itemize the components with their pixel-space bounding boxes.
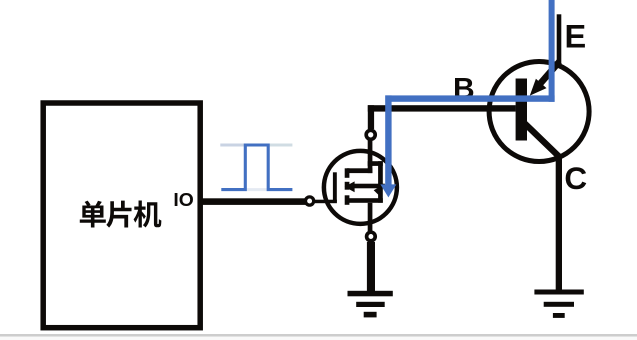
wire blue supply vertical right bbox=[549, 0, 555, 102]
wire blue vertical into MOSFET bbox=[385, 95, 391, 185]
transistor Q2 emitter diagonal bbox=[541, 62, 560, 84]
bottom frame line bbox=[0, 334, 637, 340]
box label text 单 bbox=[80, 201, 106, 228]
ground symbol G1 bbox=[348, 291, 393, 318]
pin label IO bbox=[173, 189, 193, 210]
transistor Q2 emitter arrow bbox=[530, 79, 547, 96]
svg-text:C: C bbox=[564, 160, 587, 196]
MOSFET Q1 source contact bar bbox=[345, 195, 350, 205]
pulse waveform ghost top-right bbox=[268, 144, 292, 147]
wire IO output bbox=[202, 198, 306, 205]
MOSFET Q1 gate bar bbox=[333, 172, 337, 201]
wire source horizontal bbox=[347, 198, 383, 203]
blue current arrowhead bbox=[380, 184, 396, 197]
MOSFET Q1 body line bbox=[352, 184, 385, 189]
microcontroller box bbox=[43, 103, 200, 328]
wire MOSFET drain up bbox=[368, 105, 374, 129]
node label E bbox=[564, 19, 586, 55]
MOSFET drain terminal node bbox=[366, 130, 375, 139]
wire source vertical bbox=[368, 203, 373, 232]
MOSFET Q1 drain contact bar bbox=[345, 168, 350, 178]
node label C bbox=[564, 160, 587, 196]
ground symbol G2 bbox=[534, 290, 583, 318]
wire drain-source jog vertical bbox=[378, 161, 383, 203]
wire MOSFET source to ground bbox=[367, 242, 375, 291]
gate terminal node bbox=[306, 197, 314, 205]
wire emitter lead bbox=[557, 14, 562, 64]
box label text 机 bbox=[134, 201, 162, 228]
transistor Q2 body circle bbox=[489, 62, 589, 162]
wire base lead bbox=[368, 105, 516, 111]
transistor Q2 base bar bbox=[516, 79, 527, 141]
svg-text:E: E bbox=[564, 19, 586, 55]
box label text 片 bbox=[106, 201, 131, 228]
pulse waveform signal bbox=[221, 145, 292, 190]
wire drain horizontal bbox=[347, 168, 372, 173]
MOSFET Q1 body circle bbox=[324, 151, 397, 224]
MOSFET Q1 inner diagonal arrowhead bbox=[374, 186, 382, 195]
wire blue horizontal bbox=[385, 95, 554, 101]
wire collector to ground bbox=[556, 155, 562, 291]
MOSFET Q1 body arrow bbox=[345, 181, 355, 192]
MOSFET source terminal node bbox=[367, 232, 376, 241]
transistor Q2 collector diagonal bbox=[525, 124, 560, 158]
svg-text:IO: IO bbox=[173, 189, 193, 210]
pulse waveform ghost bottom-middle bbox=[245, 188, 268, 191]
wire drain vertical bbox=[368, 140, 373, 173]
node label B bbox=[453, 72, 475, 105]
wire gate lead bbox=[314, 200, 337, 204]
MOSFET Q1 body contact bar bbox=[345, 182, 350, 190]
wire drain-source jog horizontal bbox=[368, 161, 383, 166]
pulse waveform ghost top-left bbox=[220, 144, 245, 147]
